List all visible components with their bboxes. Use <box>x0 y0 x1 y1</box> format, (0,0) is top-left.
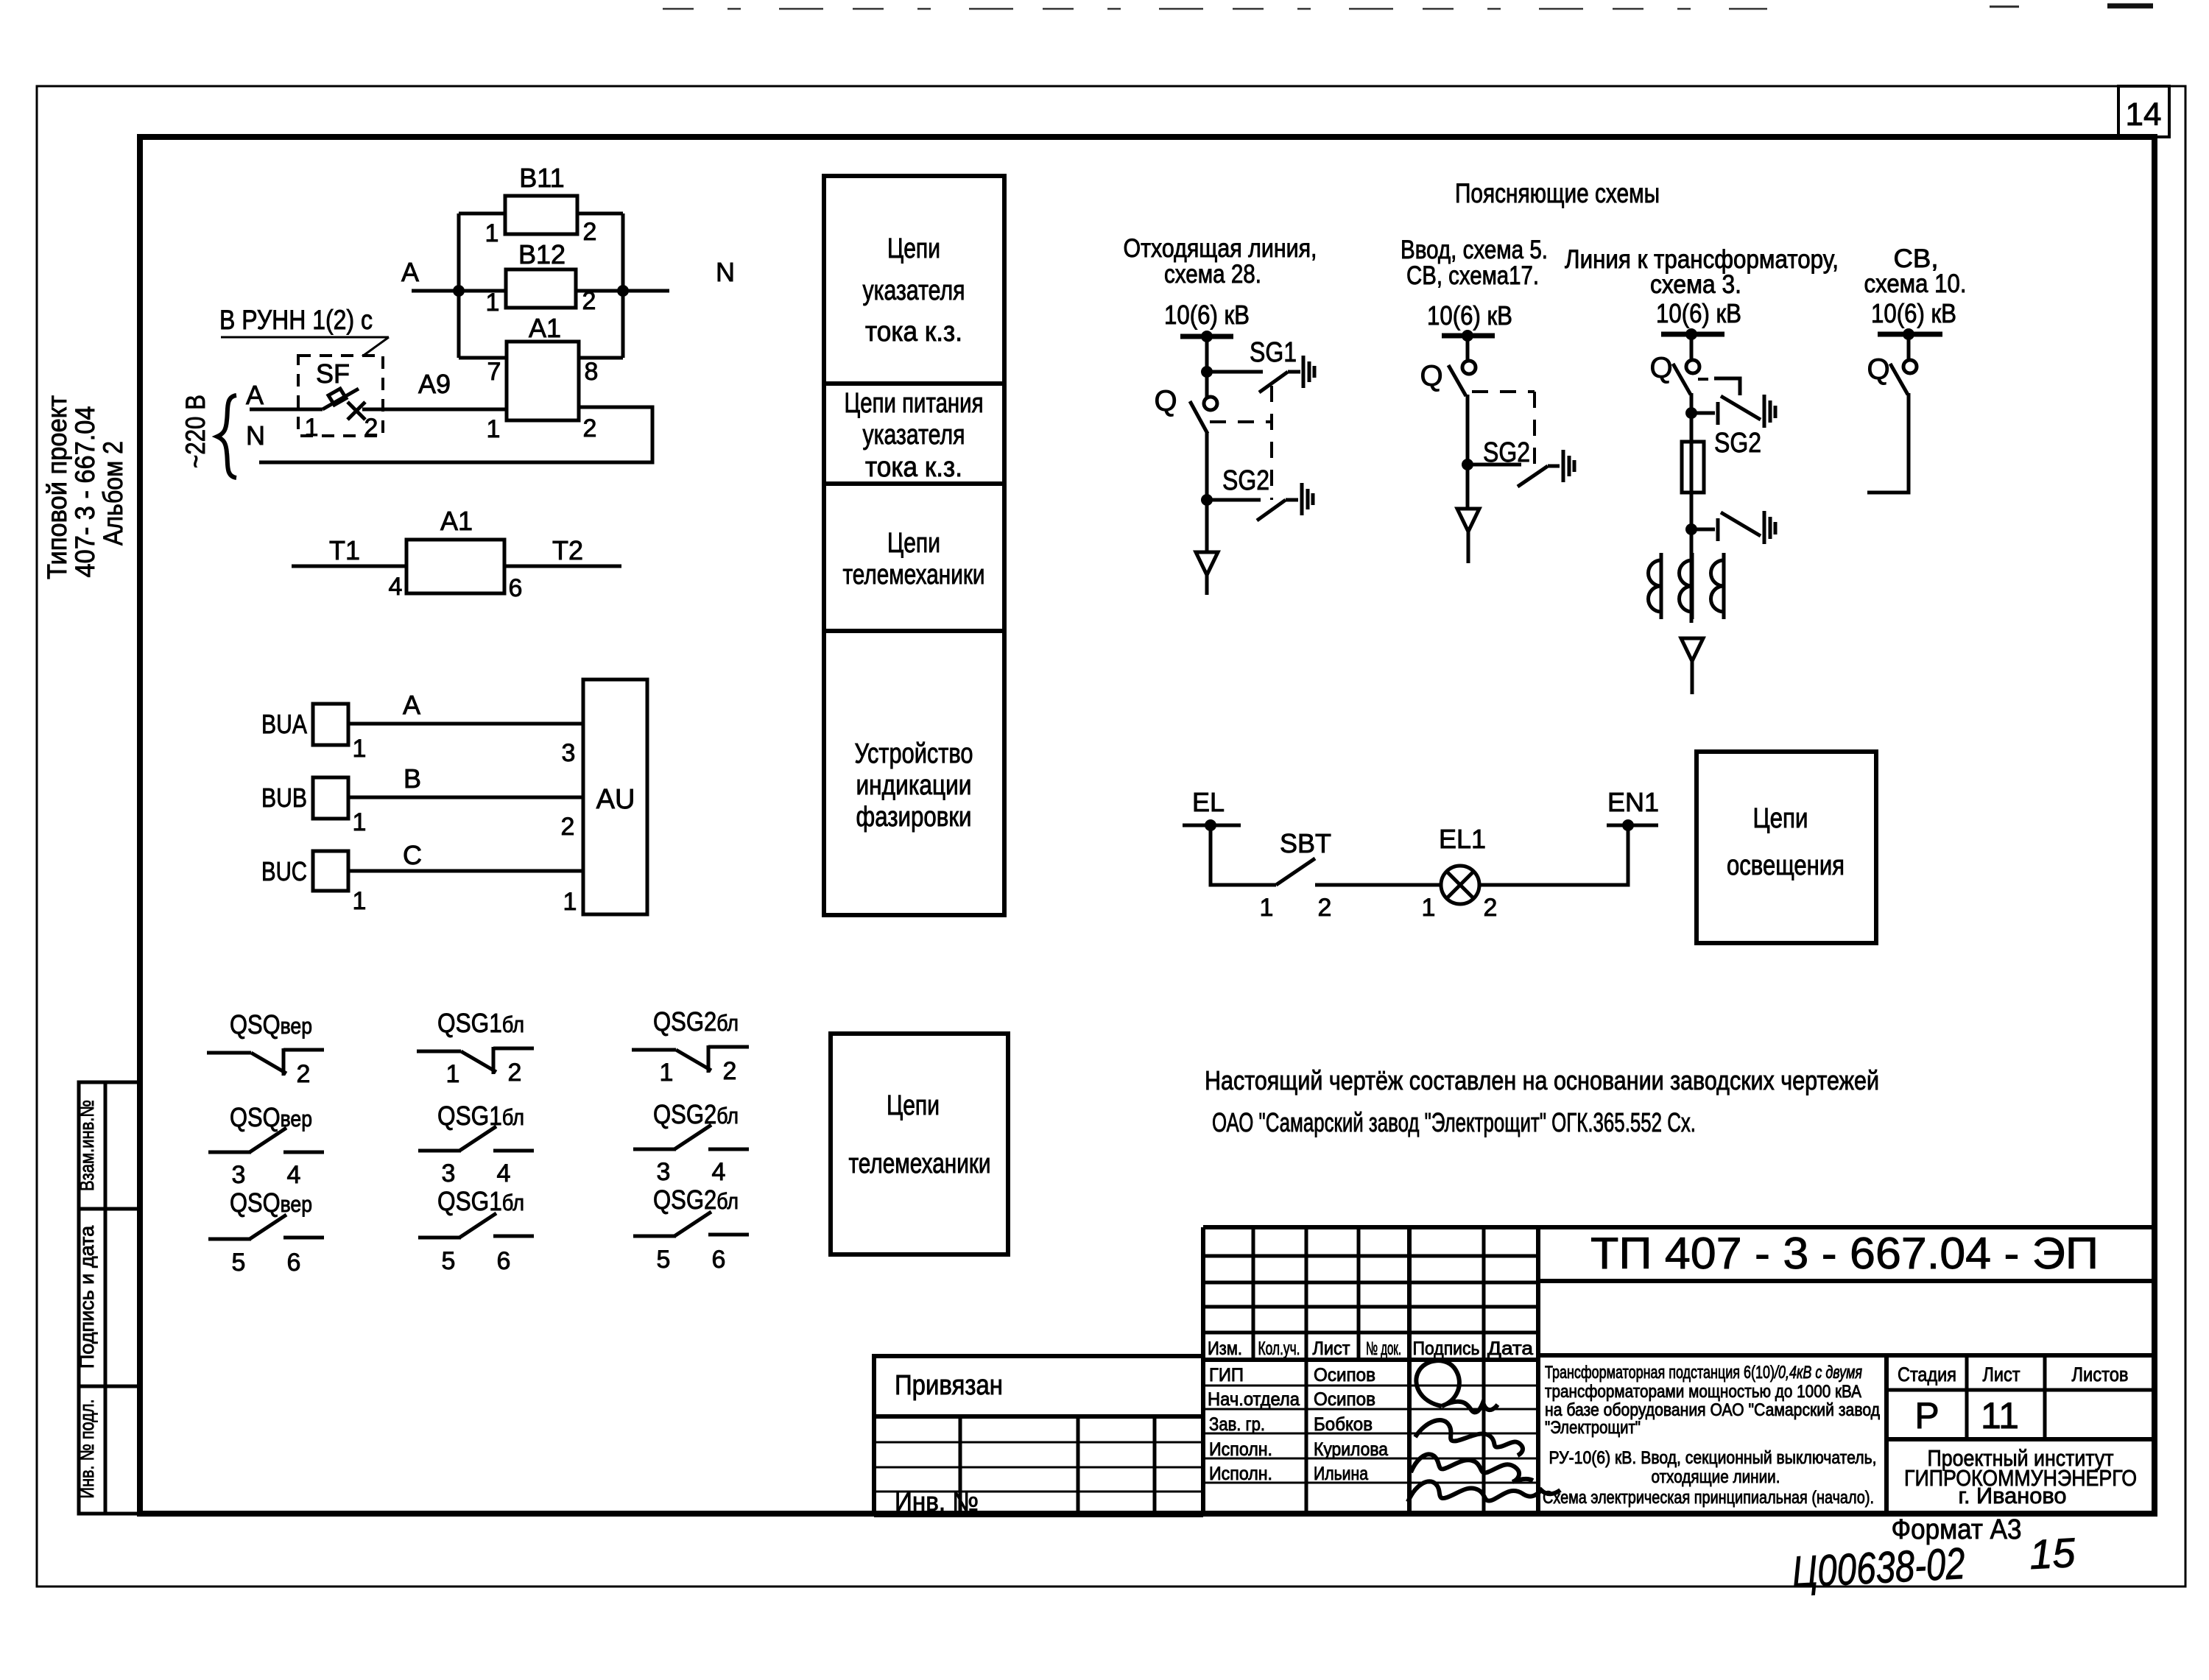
svg-text:N: N <box>246 420 265 451</box>
svg-text:4: 4 <box>287 1161 301 1189</box>
contact QSG2бл r1 <box>632 1045 749 1073</box>
switch SBT <box>1276 858 1315 885</box>
contact QSQвер r2 <box>208 1128 324 1152</box>
wire to SG2 s1 <box>1207 498 1261 502</box>
wire pin8 to rail <box>579 356 623 360</box>
svg-text:№ док.: № док. <box>1366 1338 1401 1359</box>
institute name <box>1904 1445 2137 1508</box>
svg-text:Q: Q <box>1867 353 1889 386</box>
svg-text:A9: A9 <box>418 369 451 399</box>
node dot s3 lower <box>1685 523 1697 535</box>
node dot EN1 <box>1622 819 1634 831</box>
svg-text:1: 1 <box>305 414 319 442</box>
svg-text:Цепи питания: Цепи питания <box>845 388 984 419</box>
svg-text:указателя: указателя <box>863 420 965 451</box>
relay A1 box <box>406 540 504 593</box>
legend box upper <box>824 176 1004 915</box>
svg-text:10(6) кВ: 10(6) кВ <box>1656 298 1741 328</box>
wire EL stub <box>1183 824 1241 827</box>
svg-text:на базе оборудования ОАО "Сама: на базе оборудования ОАО "Самарский заво… <box>1545 1400 1880 1420</box>
svg-text:Отходящая линия,: Отходящая линия, <box>1124 234 1317 263</box>
wire to SG1 <box>1207 370 1263 374</box>
contact QSQвер r3 <box>208 1215 324 1239</box>
junction dot N <box>617 285 629 297</box>
svg-text:A: A <box>401 257 419 287</box>
svg-text:Поясняющие схемы: Поясняющие схемы <box>1455 178 1660 208</box>
signature Ильина <box>1408 1481 1560 1502</box>
svg-text:B: B <box>404 763 421 794</box>
wire to SG2 s2 <box>1468 463 1521 467</box>
svg-text:10(6) кВ: 10(6) кВ <box>1871 298 1956 328</box>
junction dot A <box>453 285 465 297</box>
wire phase B <box>348 796 583 800</box>
svg-text:A1: A1 <box>529 313 561 343</box>
svg-text:Исполн.: Исполн. <box>1209 1464 1272 1484</box>
cable arrow s2 <box>1457 509 1479 563</box>
svg-text:BUC: BUC <box>261 856 307 886</box>
svg-text:Q: Q <box>1154 385 1177 417</box>
relay A1 upper box <box>507 342 579 420</box>
wire EN1 stub <box>1607 824 1658 827</box>
cable arrow s1 <box>1196 552 1218 595</box>
description row divider <box>1538 1353 2155 1358</box>
transformer BUC <box>313 851 348 891</box>
svg-text:Зав. гр.: Зав. гр. <box>1209 1414 1265 1435</box>
current transformer CT a <box>1649 553 1662 619</box>
wire main s3 <box>1690 393 1694 442</box>
svg-text:8: 8 <box>585 358 599 386</box>
cable arrow s3 <box>1681 638 1703 694</box>
svg-text:2: 2 <box>583 414 597 442</box>
node dot s4 <box>1903 328 1914 340</box>
svg-text:1: 1 <box>660 1059 674 1087</box>
svg-text:РУ-10(6) кВ. Ввод, секционный: РУ-10(6) кВ. Ввод, секционный выключател… <box>1549 1448 1877 1468</box>
busbar s2 <box>1442 333 1495 339</box>
svg-text:AU: AU <box>596 784 635 815</box>
earthing switch SG2 s1 <box>1257 483 1313 520</box>
earthing switch SG2 s3 <box>1691 395 1775 428</box>
wire phase C <box>348 869 583 873</box>
svg-text:Ввод, схема 5.: Ввод, схема 5. <box>1401 236 1548 264</box>
wire <box>1466 336 1470 361</box>
svg-text:QSQвер: QSQвер <box>230 1102 312 1132</box>
svg-text:6: 6 <box>287 1249 301 1277</box>
svg-text:4: 4 <box>712 1158 726 1186</box>
svg-text:Лист: Лист <box>1983 1363 2020 1386</box>
svg-text:QSQвер: QSQвер <box>230 1187 312 1218</box>
svg-text:2: 2 <box>723 1057 737 1085</box>
svg-text:тока к.з.: тока к.з. <box>865 317 962 347</box>
disconnector Q s2 <box>1448 361 1476 396</box>
node dot s3 <box>1685 328 1697 340</box>
svg-text:15: 15 <box>2028 1529 2076 1578</box>
svg-text:Кол.уч.: Кол.уч. <box>1258 1338 1300 1359</box>
SF breaker cross <box>348 402 365 420</box>
wire T1 <box>292 565 406 568</box>
svg-text:2: 2 <box>508 1059 522 1087</box>
box Привязан <box>874 1356 1203 1416</box>
svg-text:BUB: BUB <box>261 783 307 813</box>
wire A1 pin2 return <box>259 407 652 462</box>
svg-text:5: 5 <box>657 1246 671 1274</box>
svg-text:3: 3 <box>442 1160 456 1187</box>
svg-text:схема 28.: схема 28. <box>1164 260 1261 289</box>
svg-text:СВ, схема17.: СВ, схема17. <box>1406 261 1539 290</box>
inventory mini table <box>874 1416 1203 1515</box>
svg-text:EL1: EL1 <box>1439 824 1486 854</box>
svg-text:Изм.: Изм. <box>1208 1338 1242 1359</box>
svg-text:5: 5 <box>442 1247 456 1275</box>
node dot s3 upper <box>1685 407 1697 419</box>
wire <box>1690 334 1694 361</box>
switch SF blade <box>323 389 359 409</box>
svg-text:Настоящий чертёж составлен на: Настоящий чертёж составлен на основании … <box>1205 1065 1879 1095</box>
svg-text:Осипов: Осипов <box>1314 1389 1375 1410</box>
rotated project title text <box>42 395 128 579</box>
svg-text:SBT: SBT <box>1280 828 1331 858</box>
svg-text:QSG2бл: QSG2бл <box>653 1185 739 1215</box>
wire phase A <box>348 722 583 726</box>
resistor B11 <box>505 196 577 234</box>
brace for source <box>217 395 236 478</box>
svg-text:тока к.з.: тока к.з. <box>865 452 962 483</box>
svg-text:Инв. № подл.: Инв. № подл. <box>76 1400 98 1499</box>
svg-text:Инв. №: Инв. № <box>895 1486 979 1517</box>
svg-text:4: 4 <box>389 573 403 601</box>
svg-text:3: 3 <box>657 1158 671 1186</box>
svg-text:1: 1 <box>563 888 577 916</box>
svg-text:Исполн.: Исполн. <box>1209 1439 1272 1460</box>
svg-text:5: 5 <box>232 1249 246 1277</box>
wire B11 left <box>459 212 505 216</box>
contact QSG2бл r2 <box>633 1125 749 1149</box>
svg-text:1: 1 <box>487 415 501 443</box>
svg-text:Лист: Лист <box>1313 1338 1351 1359</box>
SF drive square <box>328 389 346 405</box>
signature Курилова <box>1411 1454 1533 1482</box>
scan artifact dashed line top <box>663 8 1767 10</box>
svg-text:3: 3 <box>232 1161 246 1189</box>
svg-text:~220 В: ~220 В <box>180 395 211 468</box>
svg-text:QSQвер: QSQвер <box>230 1009 312 1040</box>
svg-text:6: 6 <box>497 1247 511 1275</box>
device AU box <box>583 680 647 914</box>
svg-text:Типовой проект: Типовой проект <box>42 395 72 579</box>
svg-text:отходящие линии.: отходящие линии. <box>1652 1467 1780 1487</box>
svg-text:схема 3.: схема 3. <box>1650 270 1741 299</box>
disconnector Q s3 <box>1673 360 1699 395</box>
svg-text:ОАО "Самарский завод "Электрощ: ОАО "Самарский завод "Электрощит" ОГК.36… <box>1212 1107 1696 1137</box>
svg-text:N: N <box>716 257 735 287</box>
svg-text:Q: Q <box>1420 360 1442 392</box>
svg-text:Листов: Листов <box>2072 1363 2129 1386</box>
wire A9 <box>362 408 507 412</box>
svg-text:A: A <box>403 690 420 720</box>
svg-text:Цепи: Цепи <box>887 1090 940 1121</box>
contact QSG1бл r3 <box>418 1213 534 1238</box>
node dot SG1 <box>1201 366 1213 378</box>
legend box lower Цепи телемеханики <box>831 1034 1008 1254</box>
svg-text:Цепи: Цепи <box>887 233 940 264</box>
contact QSQвер r1 <box>207 1048 324 1076</box>
svg-text:407- 3 - 667.04: 407- 3 - 667.04 <box>70 406 100 578</box>
svg-text:Привязан: Привязан <box>895 1370 1003 1401</box>
svg-text:C: C <box>403 840 422 870</box>
svg-text:"Электрощит": "Электрощит" <box>1545 1418 1641 1438</box>
wire A into SF <box>250 408 323 412</box>
svg-text:QSG1бл: QSG1бл <box>437 1008 524 1038</box>
svg-text:2: 2 <box>1484 894 1498 922</box>
current transformer CT b <box>1680 553 1693 619</box>
svg-text:Подпись и дата: Подпись и дата <box>76 1225 98 1369</box>
fuse s3 <box>1682 442 1704 493</box>
contact QSG1бл r1 <box>417 1047 534 1074</box>
svg-text:Осипов: Осипов <box>1314 1365 1375 1386</box>
revision table verticals <box>1203 1227 1538 1514</box>
svg-text:3: 3 <box>562 739 576 767</box>
earthing switch 2 s3 <box>1691 511 1775 544</box>
inner drawing frame <box>140 137 2155 1514</box>
svg-text:SG2: SG2 <box>1222 465 1269 496</box>
svg-text:1: 1 <box>353 735 367 763</box>
svg-text:указателя: указателя <box>863 275 965 306</box>
svg-text:14: 14 <box>2126 96 2162 133</box>
svg-text:10(6) кВ: 10(6) кВ <box>1164 300 1250 330</box>
svg-text:Бобков: Бобков <box>1314 1414 1373 1435</box>
svg-text:1: 1 <box>486 289 500 317</box>
svg-text:Устройство: Устройство <box>855 738 973 769</box>
left stamp column boxes <box>79 1082 140 1514</box>
svg-text:2: 2 <box>364 414 378 442</box>
resistor B12 <box>506 269 576 308</box>
svg-text:1: 1 <box>485 219 499 247</box>
busbar s1 <box>1180 334 1233 339</box>
svg-text:10(6) кВ: 10(6) кВ <box>1427 300 1512 331</box>
svg-text:4: 4 <box>497 1160 511 1187</box>
svg-text:B11: B11 <box>519 163 564 193</box>
svg-text:6: 6 <box>712 1246 726 1274</box>
svg-text:1: 1 <box>353 808 367 836</box>
svg-text:ГИП: ГИП <box>1209 1365 1244 1386</box>
wire <box>1907 334 1911 361</box>
node N (right rail) <box>621 213 625 358</box>
svg-text:SG1: SG1 <box>1250 337 1297 368</box>
svg-text:индикации: индикации <box>856 770 972 801</box>
node dot s2 <box>1462 330 1473 342</box>
transformer BUB <box>313 777 348 819</box>
transformer BUA <box>313 704 348 745</box>
svg-text:телемеханики: телемеханики <box>849 1148 991 1179</box>
svg-text:2: 2 <box>297 1060 311 1088</box>
svg-text:B12: B12 <box>518 239 566 269</box>
contact QSG2бл r3 <box>633 1212 749 1236</box>
svg-text:BUA: BUA <box>261 709 307 739</box>
svg-text:ТП 407 - 3 - 667.04 - ЭП: ТП 407 - 3 - 667.04 - ЭП <box>1590 1229 2099 1278</box>
svg-text:1: 1 <box>446 1060 460 1088</box>
disconnector Q s4 <box>1890 360 1917 395</box>
wire main s4 <box>1867 393 1909 493</box>
svg-text:7: 7 <box>487 358 501 386</box>
handwritten inventory number <box>1791 1529 2077 1597</box>
svg-text:A1: A1 <box>440 506 473 536</box>
svg-text:Q: Q <box>1649 352 1672 384</box>
svg-text:2: 2 <box>561 813 575 841</box>
lamp EL1 <box>1441 866 1479 904</box>
node dot SG2 s2 <box>1462 459 1473 470</box>
mechanical link dashed s1 <box>1210 420 1272 423</box>
wire SBT to lamp <box>1315 883 1441 887</box>
svg-text:QSG1бл: QSG1бл <box>437 1186 524 1216</box>
busbar s4 <box>1878 332 1942 337</box>
wire main s3 lower <box>1690 442 1694 623</box>
svg-text:схема 10.: схема 10. <box>1864 269 1967 298</box>
breaker SF dashed box <box>298 356 383 436</box>
svg-text:EN1: EN1 <box>1607 787 1659 817</box>
wire B11 right <box>577 212 623 216</box>
description text 1 <box>1545 1363 1880 1438</box>
svg-text:SG2: SG2 <box>1714 428 1761 459</box>
sheet number box 14 <box>2118 86 2169 137</box>
description text 2 <box>1543 1448 1877 1508</box>
lighting legend box <box>1697 752 1876 943</box>
designation cell ТП 407-3-667.04-ЭП <box>1538 1279 2155 1283</box>
node dot SG2 s1 <box>1201 494 1213 506</box>
callout В РУНН 1(2) с <box>219 305 389 356</box>
svg-text:SF: SF <box>316 359 350 389</box>
svg-text:6: 6 <box>509 574 523 602</box>
svg-text:освещения: освещения <box>1727 850 1845 881</box>
svg-text:11: 11 <box>1981 1395 2019 1436</box>
wire <box>1205 336 1209 398</box>
svg-text:Курилова: Курилова <box>1314 1439 1388 1460</box>
svg-text:Схема электрическая принципиал: Схема электрическая принципиальная (нача… <box>1543 1488 1874 1508</box>
contact QSG1бл r2 <box>418 1126 534 1151</box>
svg-text:Р: Р <box>1914 1395 1939 1436</box>
wire down <box>1211 825 1276 885</box>
node dot s1 <box>1201 331 1213 342</box>
wire main s2 <box>1466 395 1470 509</box>
svg-text:телемеханики: телемеханики <box>843 560 985 590</box>
node dot EL <box>1205 819 1216 831</box>
revision table horizontals <box>1203 1256 1538 1483</box>
stage table <box>1886 1355 2155 1439</box>
wire A-N main <box>412 289 506 293</box>
svg-text:QSG2бл: QSG2бл <box>653 1099 739 1129</box>
svg-text:T1: T1 <box>329 535 360 565</box>
svg-text:Дата: Дата <box>1487 1338 1533 1359</box>
svg-text:Подпись: Подпись <box>1413 1338 1480 1359</box>
wire main s1 <box>1205 432 1209 552</box>
svg-text:Цепи: Цепи <box>887 528 940 559</box>
svg-text:1: 1 <box>1260 894 1274 922</box>
svg-text:1: 1 <box>1422 894 1436 922</box>
wire T2 <box>504 565 621 568</box>
svg-text:фазировки: фазировки <box>856 802 972 833</box>
svg-text:A: A <box>246 380 264 410</box>
signature Бобков <box>1415 1420 1523 1455</box>
mechanical link s3 <box>1698 378 1714 381</box>
svg-text:QSG2бл: QSG2бл <box>653 1006 739 1037</box>
current transformer CT c <box>1711 553 1724 619</box>
svg-text:г. Иваново: г. Иваново <box>1959 1483 2067 1508</box>
svg-text:Ц00638-02: Ц00638-02 <box>1791 1539 1966 1597</box>
svg-text:2: 2 <box>583 218 597 246</box>
svg-text:Ильина: Ильина <box>1314 1464 1368 1484</box>
disconnector Q s1 <box>1190 397 1217 434</box>
mechanical link dashed s2 <box>1472 390 1535 393</box>
wire lamp to EN1 <box>1479 825 1628 885</box>
svg-text:Цепи: Цепи <box>1753 803 1808 834</box>
earthing switch SG2 s2 <box>1518 450 1574 487</box>
svg-text:2: 2 <box>1318 894 1332 922</box>
svg-text:Альбом 2: Альбом 2 <box>98 441 128 546</box>
svg-text:QSG1бл: QSG1бл <box>437 1101 524 1131</box>
signature Осипов <box>1416 1360 1498 1412</box>
node A (left rail) <box>457 213 461 358</box>
busbar s3 <box>1661 332 1724 337</box>
svg-text:Стадия: Стадия <box>1898 1363 1956 1386</box>
earthing switch SG1 <box>1259 356 1314 392</box>
svg-text:Трансформаторная подстанция 6: Трансформаторная подстанция 6(10)/0,4кВ … <box>1545 1363 1862 1383</box>
svg-text:В РУНН 1(2) с: В РУНН 1(2) с <box>219 305 373 335</box>
divider description / stage <box>1884 1355 1889 1514</box>
svg-text:EL: EL <box>1192 787 1225 817</box>
svg-text:Нач.отдела: Нач.отдела <box>1208 1389 1300 1410</box>
svg-text:1: 1 <box>353 887 367 915</box>
wire rail to pin7 <box>459 356 507 360</box>
svg-text:T2: T2 <box>552 535 583 565</box>
svg-text:трансформаторами мощностью до: трансформаторами мощностью до 1000 кВА <box>1545 1382 1861 1402</box>
title block outline top <box>1203 1225 2155 1229</box>
svg-text:Взам.инв.№: Взам.инв.№ <box>76 1100 98 1191</box>
